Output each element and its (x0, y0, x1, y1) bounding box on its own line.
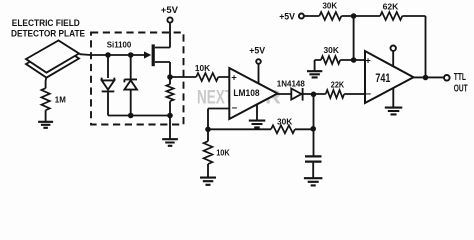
svg-text:30K: 30K (324, 45, 340, 55)
svg-text:10K: 10K (216, 147, 230, 157)
svg-text:−: − (232, 103, 238, 114)
svg-text:+: + (365, 56, 371, 67)
svg-text:DETECTOR PLATE: DETECTOR PLATE (11, 28, 85, 38)
svg-text:LM108: LM108 (233, 88, 259, 99)
svg-text:Si1100: Si1100 (107, 40, 132, 50)
svg-text:10K: 10K (195, 63, 211, 73)
svg-text:1N4148: 1N4148 (277, 78, 305, 88)
svg-text:30K: 30K (323, 1, 338, 11)
svg-text:22K: 22K (331, 80, 345, 90)
svg-text:30K: 30K (277, 116, 293, 126)
svg-text:ELECTRIC FIELD: ELECTRIC FIELD (12, 18, 80, 28)
svg-text:+5V: +5V (161, 5, 178, 15)
svg-text:NEXT: NEXT (197, 88, 233, 109)
svg-text:741: 741 (375, 73, 390, 85)
svg-text:1M: 1M (55, 95, 66, 105)
svg-text:+5V: +5V (279, 12, 295, 22)
svg-text:OUT: OUT (454, 84, 468, 95)
svg-text:+: + (231, 73, 237, 84)
svg-text:TTL: TTL (454, 72, 466, 83)
svg-text:62K: 62K (383, 1, 400, 11)
svg-text:+5V: +5V (249, 46, 265, 56)
svg-text:−: − (366, 89, 372, 100)
